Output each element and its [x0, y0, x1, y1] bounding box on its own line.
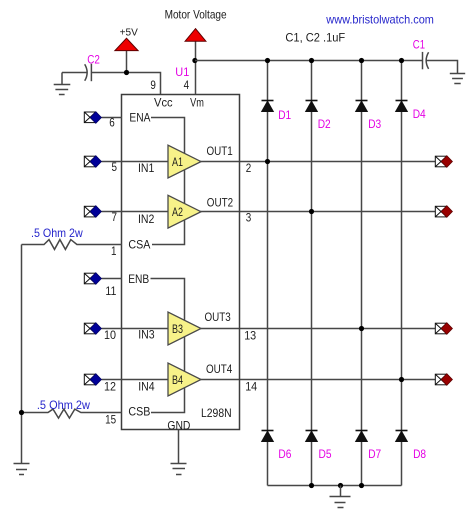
capacitor C1 — [423, 52, 429, 69]
driver amp A1 — [168, 145, 201, 178]
junction dot bottom rail col2 — [309, 483, 314, 488]
junction dot bottom rail col3 — [359, 483, 364, 488]
junction dot bottom rail gnd — [338, 483, 343, 488]
power Motor Voltage — [165, 7, 227, 94]
wire diode column 1 — [267, 61, 269, 486]
input port pin 11 (ENB) — [84, 273, 122, 285]
svg-text:Motor Voltage: Motor Voltage — [165, 7, 227, 21]
junction dot rail col1 — [265, 58, 270, 63]
wire C1 to ground — [426, 61, 457, 74]
diode D5 — [306, 431, 332, 462]
input port pin 5 (IN1) — [84, 156, 122, 168]
diode D7 — [356, 431, 382, 462]
resistor .5 Ohm 2w (CSB sense) — [22, 398, 123, 418]
junction dot OUT4/col4 — [399, 377, 404, 382]
svg-text:D3: D3 — [368, 117, 381, 131]
junction dot rail col2 — [309, 58, 314, 63]
junction dot +5V rail — [124, 70, 129, 75]
input port pin 10 (IN3) — [84, 323, 122, 335]
svg-text:1: 1 — [111, 244, 117, 258]
diode D1 — [262, 101, 292, 123]
svg-text:.5 Ohm 2w: .5 Ohm 2w — [31, 226, 83, 240]
svg-text:D6: D6 — [278, 447, 291, 461]
junction dot sense common — [19, 410, 24, 415]
wire ENB to CSB enable/sense bus — [151, 279, 185, 413]
wire diode column 4 — [401, 61, 403, 486]
ground (top left, C2 return) — [54, 73, 71, 95]
output port pin 2 (OUT1) — [435, 156, 452, 168]
wire IN1/OUT1 row (pin 5 to pin 2) — [122, 161, 436, 163]
output port pin 13 (OUT3) — [435, 323, 452, 335]
svg-text:www.bristolwatch.com: www.bristolwatch.com — [325, 12, 434, 26]
svg-text:IN1: IN1 — [138, 161, 155, 175]
junction dot Vm node — [192, 58, 197, 63]
svg-text:5: 5 — [112, 160, 118, 174]
svg-text:.5 Ohm 2w: .5 Ohm 2w — [37, 398, 90, 412]
ground (top right) — [450, 74, 465, 84]
driver amp A2 — [168, 195, 201, 228]
wire C2 to pin 9 — [91, 73, 160, 95]
svg-text:C1, C2 .1uF: C1, C2 .1uF — [285, 31, 345, 45]
output port pin 3 (OUT2) — [435, 206, 452, 218]
svg-text:D4: D4 — [413, 107, 426, 121]
svg-text:A2: A2 — [172, 205, 183, 219]
diode D4 — [396, 101, 426, 122]
svg-text:D8: D8 — [413, 447, 426, 461]
svg-text:10: 10 — [104, 328, 116, 342]
junction dot rail col3 — [359, 58, 364, 63]
svg-text:L298N: L298N — [201, 406, 232, 420]
svg-text:4: 4 — [184, 78, 190, 92]
svg-text:B4: B4 — [172, 373, 183, 387]
wire IN2/OUT2 row (pin 7 to pin 3) — [122, 211, 436, 213]
junction dot rail col4 — [399, 58, 404, 63]
svg-text:ENB: ENB — [128, 272, 149, 286]
svg-text:D7: D7 — [368, 447, 381, 461]
svg-text:OUT2: OUT2 — [207, 195, 234, 209]
svg-text:2: 2 — [246, 161, 252, 175]
svg-text:9: 9 — [150, 78, 156, 92]
ground (bottom rail) — [330, 486, 351, 508]
wire IC GND pin — [178, 430, 180, 464]
svg-text:13: 13 — [244, 329, 256, 343]
driver amp B4 — [168, 363, 201, 396]
svg-text:D2: D2 — [318, 117, 331, 131]
wire IN4/OUT4 row (pin 12 to pin 14) — [122, 379, 436, 381]
junction dot OUT2/col2 — [309, 209, 314, 214]
svg-text:C2: C2 — [87, 53, 100, 67]
svg-text:Vm: Vm — [190, 96, 204, 110]
svg-text:C1: C1 — [413, 37, 425, 51]
svg-text:11: 11 — [105, 284, 116, 298]
svg-text:6: 6 — [109, 116, 115, 130]
svg-text:IN4: IN4 — [138, 380, 155, 394]
wire bottom diode rail — [268, 485, 402, 487]
svg-text:A1: A1 — [172, 155, 183, 169]
capacitor C2 — [85, 64, 92, 81]
diode D3 — [356, 101, 382, 131]
svg-text:ENA: ENA — [129, 111, 150, 125]
svg-text:CSA: CSA — [128, 238, 150, 252]
svg-text:D1: D1 — [278, 108, 291, 122]
input port pin 12 (IN4) — [84, 374, 122, 386]
svg-text:15: 15 — [105, 413, 116, 427]
driver amp B3 — [168, 312, 201, 345]
svg-text:D5: D5 — [319, 447, 332, 461]
wire sense resistor common (left vertical) — [21, 245, 23, 464]
ground (bottom left) — [14, 464, 30, 475]
junction dot OUT3/col3 — [359, 326, 364, 331]
wire diode column 2 — [311, 61, 313, 486]
wire ground to C2 — [62, 72, 87, 74]
svg-text:IN2: IN2 — [138, 212, 155, 226]
svg-text:14: 14 — [245, 379, 257, 393]
power +5V — [115, 28, 138, 73]
input port pin 7 (IN2) — [84, 206, 122, 218]
wire IN3/OUT3 row (pin 10 to pin 13) — [122, 328, 436, 330]
diode D2 — [306, 101, 331, 131]
svg-text:Vcc: Vcc — [154, 96, 173, 110]
wire diode column 3 — [361, 61, 363, 486]
IC U1 L298N body — [122, 95, 240, 430]
svg-text:3: 3 — [246, 211, 252, 225]
svg-text:IN3: IN3 — [138, 328, 155, 342]
svg-text:U1: U1 — [175, 65, 189, 79]
svg-text:7: 7 — [112, 210, 118, 224]
svg-text:OUT4: OUT4 — [206, 362, 233, 376]
svg-text:+5V: +5V — [120, 28, 139, 39]
resistor .5 Ohm 2w (CSA sense) — [22, 226, 123, 250]
wire top motor-supply rail — [195, 60, 422, 62]
svg-text:OUT1: OUT1 — [207, 144, 234, 158]
junction dot OUT1/col1 — [265, 159, 270, 164]
svg-text:12: 12 — [104, 379, 116, 393]
svg-text:CSB: CSB — [128, 404, 150, 418]
diode D6 — [262, 431, 292, 462]
svg-text:OUT3: OUT3 — [205, 310, 232, 324]
output port pin 14 (OUT4) — [435, 374, 452, 386]
wire ENA to CSA enable/sense bus — [151, 118, 185, 245]
diode D8 — [396, 431, 427, 462]
svg-text:B3: B3 — [172, 322, 183, 336]
input port pin 6 (ENA) — [84, 112, 122, 124]
ground (IC GND) — [171, 464, 187, 475]
